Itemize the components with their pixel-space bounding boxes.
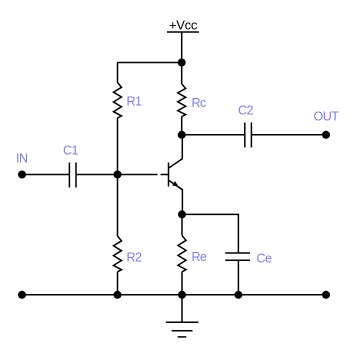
resistor R1: [114, 83, 122, 119]
wire collector to C2: [182, 134, 245, 136]
svg-text:Rc: Rc: [192, 96, 207, 110]
svg-text:Ce: Ce: [257, 252, 273, 266]
wire base node to transistor: [118, 174, 158, 176]
capacitor C2: [245, 123, 252, 148]
wire Ce bottom lead: [237, 260, 239, 295]
wire R1 bottom lead: [117, 118, 119, 175]
net +Vcc rail bar: [167, 31, 199, 33]
node bottom-left terminal: [18, 291, 26, 299]
svg-text:OUT: OUT: [314, 110, 340, 124]
transistor Q1 collector: [169, 135, 183, 168]
wire emitter to Ce: [182, 214, 238, 253]
wire R1 top lead: [117, 63, 119, 83]
capacitor Ce: [225, 253, 250, 260]
wire Rc bottom lead: [181, 117, 183, 135]
wire IN to C1: [22, 174, 69, 176]
wire top rail: [118, 62, 182, 64]
svg-text:+Vcc: +Vcc: [169, 18, 198, 33]
svg-text:C1: C1: [63, 144, 79, 158]
node IN terminal: [18, 171, 26, 179]
wire bottom rail: [22, 294, 326, 296]
node emitter junction: [178, 210, 186, 218]
wire C1 to base node: [76, 174, 118, 176]
transistor Q1 base lead: [161, 174, 169, 176]
node Ce ground junction: [234, 291, 242, 299]
ground symbol: [166, 295, 199, 337]
node collector junction: [178, 131, 186, 139]
transistor Q1 emitter arrow: [172, 181, 179, 187]
svg-text:R2: R2: [127, 251, 143, 265]
transistor Q1 emitter: [169, 180, 183, 214]
svg-text:R1: R1: [127, 95, 143, 109]
node Re ground junction: [178, 291, 186, 299]
wire Vcc stem: [181, 32, 183, 63]
svg-text:IN: IN: [16, 152, 28, 166]
svg-text:Re: Re: [192, 250, 208, 264]
node OUT terminal: [322, 131, 330, 139]
wire Re top lead: [181, 214, 183, 235]
wire Re bottom lead: [181, 272, 183, 295]
node R2 ground junction: [114, 291, 122, 299]
wire R2 bottom lead: [117, 272, 119, 295]
transistor Q1 base bar: [168, 163, 170, 187]
resistor Rc: [178, 84, 186, 117]
node bottom-right terminal: [322, 291, 330, 299]
capacitor C1: [69, 163, 76, 188]
resistor R2: [114, 236, 122, 272]
wire C2 to OUT: [251, 134, 326, 136]
resistor Re: [178, 236, 186, 272]
wire R2 top lead: [117, 175, 119, 237]
wire Rc top lead: [181, 63, 183, 85]
svg-text:C2: C2: [238, 104, 254, 118]
node Vcc junction: [178, 59, 186, 67]
node base junction: [114, 171, 122, 179]
